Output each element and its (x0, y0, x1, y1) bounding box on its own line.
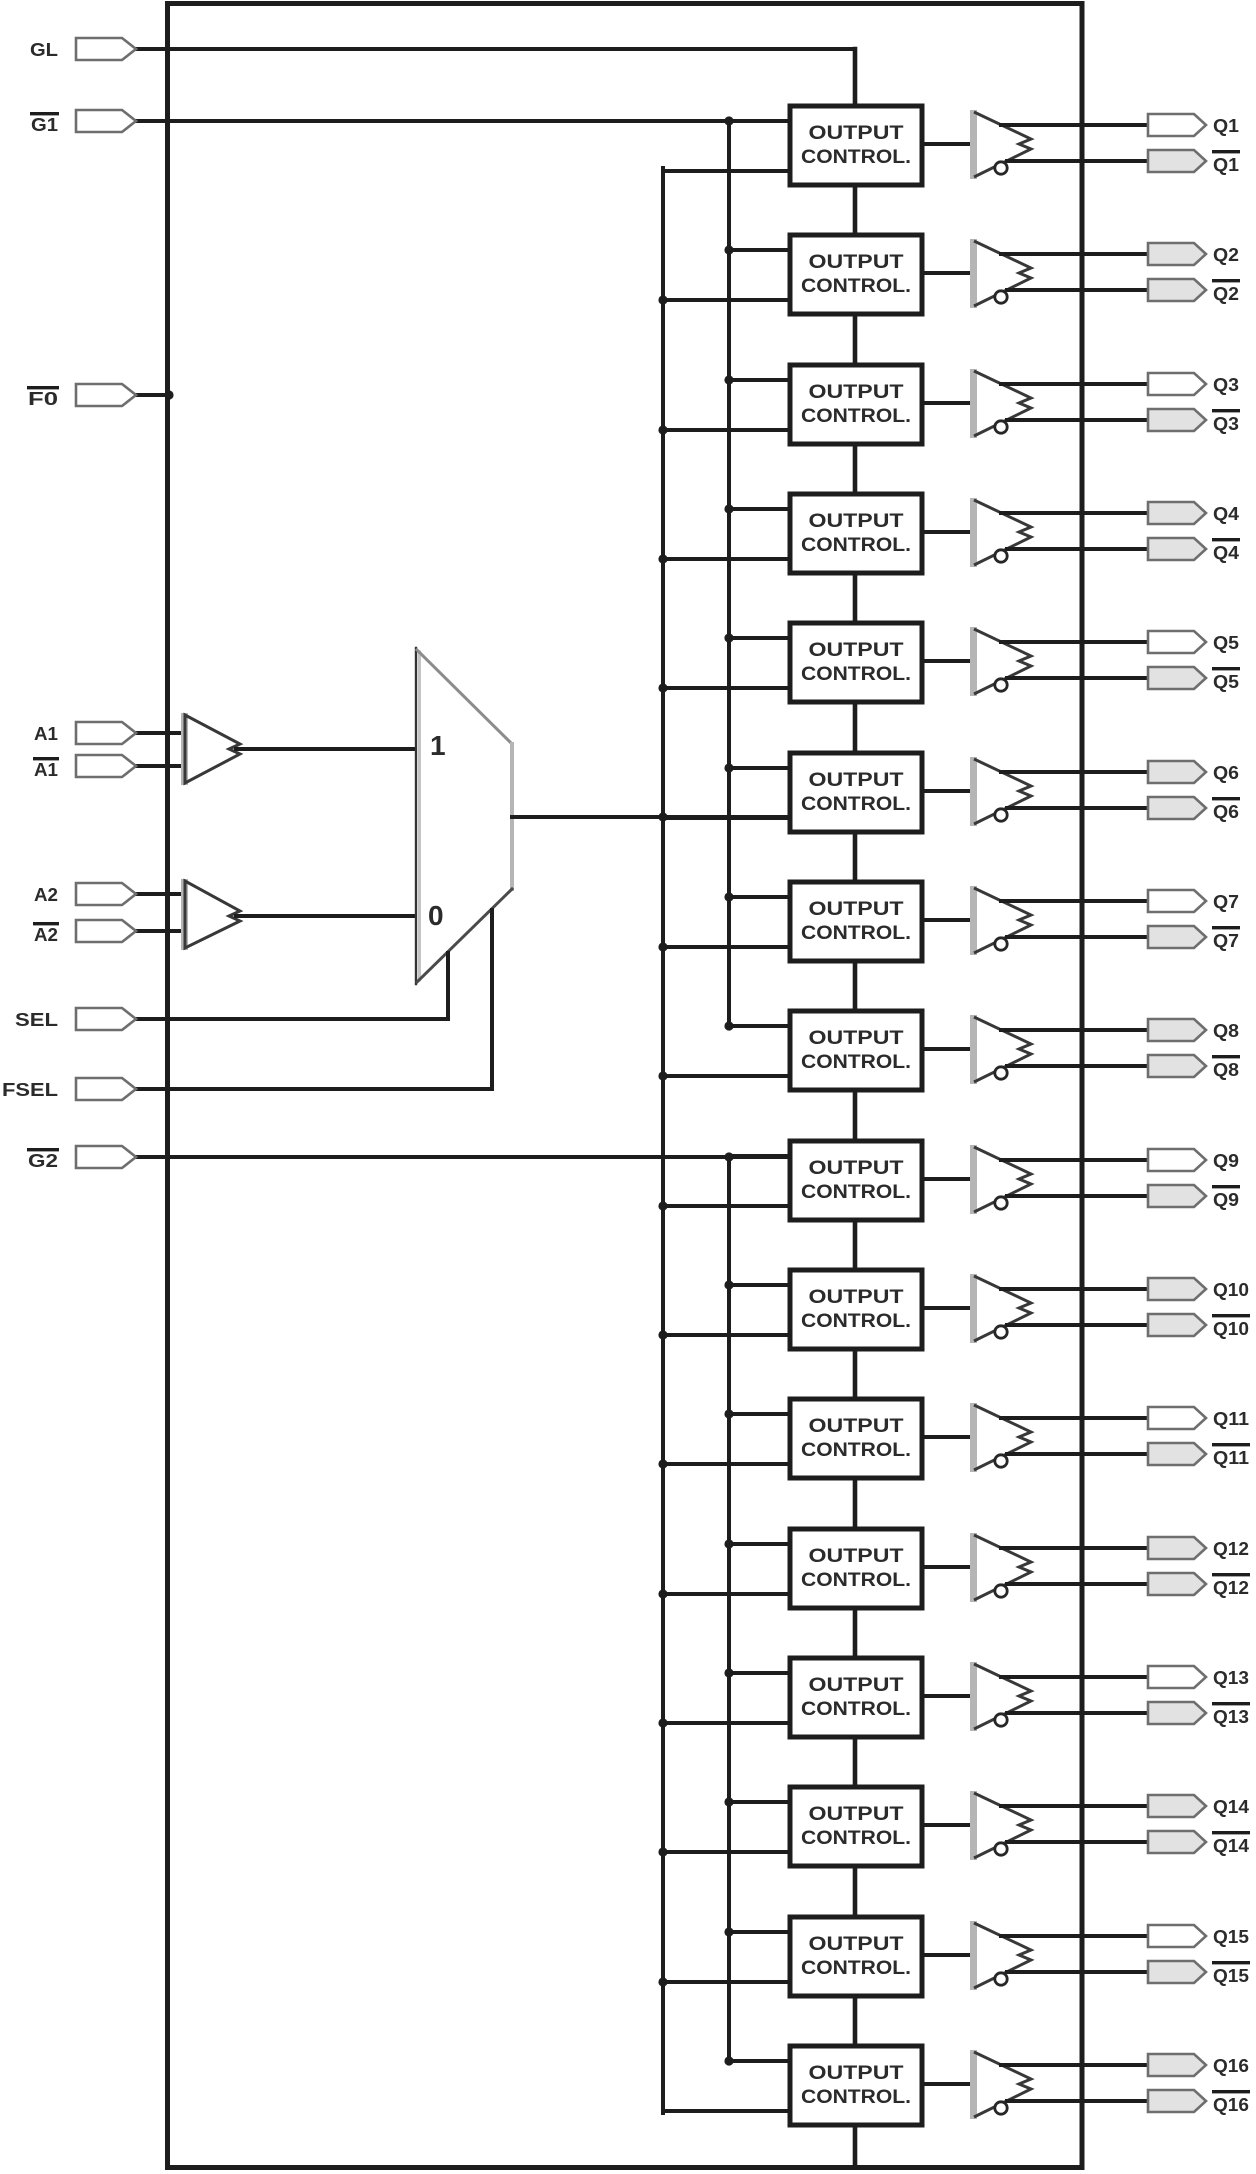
wire: Q8bar output (1007, 1064, 1148, 1068)
input pin A2 (133, 892, 184, 896)
svg-text:CONTROL.: CONTROL. (801, 147, 911, 168)
output control block OC9 (790, 1141, 922, 1220)
svg-text:OUTPUT: OUTPUT (809, 640, 904, 661)
junction G2 vertical block 12 (724, 1539, 733, 1548)
inversion bubble U8 (995, 1067, 1007, 1079)
input pin G1bar (133, 119, 790, 123)
svg-text:Q10: Q10 (1213, 1319, 1249, 1339)
svg-text:Q15: Q15 (1213, 1966, 1249, 1986)
wire: OC13 lower input (663, 1721, 790, 1725)
wire: Q6bar output (1007, 806, 1148, 810)
svg-text:G2: G2 (28, 1151, 58, 1171)
wire: OC8 output to buffer (920, 1047, 975, 1051)
output control block OC6 (790, 753, 922, 832)
svg-text:OUTPUT: OUTPUT (809, 1934, 904, 1955)
svg-text:1: 1 (430, 730, 446, 761)
junction clock vertical block 9 (658, 1201, 667, 1210)
inversion bubble U16 (995, 2102, 1007, 2114)
wire: Q1bar output (1007, 159, 1148, 163)
inversion bubble U11 (995, 1455, 1007, 1467)
input pin SEL (133, 1017, 448, 1021)
output control block OC8 (790, 1011, 922, 1090)
svg-text:CONTROL.: CONTROL. (801, 664, 911, 685)
output pin Q3 (1148, 373, 1206, 395)
wire: OC10 lower input (663, 1333, 790, 1337)
wire: Q13 output (1001, 1675, 1148, 1679)
svg-text:Q1: Q1 (1213, 116, 1239, 136)
wire: OC4 upper input (729, 507, 790, 511)
wire: OC12 lower input (663, 1592, 790, 1596)
input pin A2bar (133, 929, 184, 933)
wire: OC12 upper input (729, 1542, 790, 1546)
svg-text:Q10: Q10 (1213, 1280, 1249, 1300)
wire: Q11 output (1001, 1416, 1148, 1420)
wire: Q2 output (1001, 252, 1148, 256)
wire: OC3 output to buffer (920, 401, 975, 405)
inversion bubble U9 (995, 1197, 1007, 1209)
junction G1 vertical block 5 (724, 633, 733, 642)
inversion bubble U10 (995, 1326, 1007, 1338)
wire: OC8 upper input (729, 1024, 790, 1028)
wire: OC3 upper input (729, 378, 790, 382)
output control block OC16 (790, 2046, 922, 2125)
wire: OC7 output to buffer (920, 918, 975, 922)
output pin Q8bar (1148, 1055, 1206, 1077)
output buffer U11 (970, 1403, 977, 1472)
wire: Q5bar output (1007, 676, 1148, 680)
output control block OC12 (790, 1529, 922, 1608)
wire: Q3bar output (1007, 418, 1148, 422)
wire: Q9bar output (1007, 1194, 1148, 1198)
wire: OC15 lower input (663, 1980, 790, 1984)
output control block OC7 (790, 882, 922, 961)
junction G2 vertical block 16 (724, 2056, 733, 2065)
svg-text:Q5: Q5 (1213, 633, 1239, 653)
svg-text:Q1: Q1 (1213, 155, 1239, 175)
wire: OC6 lower input (663, 816, 790, 820)
output pin Q6bar (1148, 797, 1206, 819)
junction G1 vertical block 1 (724, 116, 733, 125)
output pin Q11 (1148, 1407, 1206, 1429)
inversion bubble U1 (995, 162, 1007, 174)
svg-text:0: 0 (428, 900, 444, 931)
wire: clock distribution vertical x=663 (661, 168, 665, 2113)
output pin Q1 (1148, 114, 1206, 136)
svg-text:OUTPUT: OUTPUT (809, 1546, 904, 1567)
output pin Q4bar (1148, 538, 1206, 560)
svg-text:Q5: Q5 (1213, 672, 1239, 692)
output control block OC14 (790, 1787, 922, 1866)
wire: Q14bar output (1007, 1840, 1148, 1844)
wire: OC11 output to buffer (920, 1435, 975, 1439)
svg-text:OUTPUT: OUTPUT (809, 1675, 904, 1696)
svg-text:OUTPUT: OUTPUT (809, 1158, 904, 1179)
svg-text:OUTPUT: OUTPUT (809, 1804, 904, 1825)
inversion bubble U14 (995, 1843, 1007, 1855)
wire: OC2 output to buffer (920, 271, 975, 275)
output pin Q8 (1148, 1019, 1206, 1041)
wire: OC4 output to buffer (920, 530, 975, 534)
wire: OC5 lower input (663, 686, 790, 690)
output control block OC13 (790, 1658, 922, 1737)
wire: OC2 lower input (663, 298, 790, 302)
wire: OC11 lower input (663, 1462, 790, 1466)
inversion bubble U13 (995, 1714, 1007, 1726)
wire: Q10 output (1001, 1287, 1148, 1291)
svg-text:FSEL: FSEL (2, 1080, 58, 1100)
junction G1 vertical block 6 (724, 763, 733, 772)
svg-text:F0: F0 (28, 389, 58, 409)
wire: OC14 output to buffer (920, 1823, 975, 1827)
svg-text:Q16: Q16 (1213, 2056, 1249, 2076)
svg-text:Q9: Q9 (1213, 1190, 1239, 1210)
wire: OC15 upper input (729, 1930, 790, 1934)
output buffer U13 (970, 1662, 977, 1731)
inversion bubble U5 (995, 679, 1007, 691)
svg-text:CONTROL.: CONTROL. (801, 406, 911, 427)
wire: G1 enable vertical x=729 (727, 121, 731, 1028)
svg-text:CONTROL.: CONTROL. (801, 2087, 911, 2108)
svg-text:OUTPUT: OUTPUT (809, 899, 904, 920)
output buffer U10 (970, 1274, 977, 1343)
junction clock vertical block 2 (658, 295, 667, 304)
svg-text:Q15: Q15 (1213, 1927, 1249, 1947)
svg-text:Q6: Q6 (1213, 802, 1239, 822)
wire: Q13bar output (1007, 1711, 1148, 1715)
wire: SEL to mux (446, 953, 450, 1019)
input pin FSEL (133, 1087, 492, 1091)
junction G1 vertical block 7 (724, 892, 733, 901)
svg-text:OUTPUT: OUTPUT (809, 770, 904, 791)
wire: Q9 output (1001, 1158, 1148, 1162)
junction G2 vertical block 11 (724, 1409, 733, 1418)
wire: OC6 upper input (729, 766, 790, 770)
output control block OC5 (790, 623, 922, 702)
svg-text:A1: A1 (34, 760, 58, 780)
wire: OC7 lower input (663, 945, 790, 949)
output pin Q13 (1148, 1666, 1206, 1688)
output buffer U5 (970, 627, 977, 696)
inversion bubble U12 (995, 1585, 1007, 1597)
svg-text:Q14: Q14 (1213, 1836, 1249, 1856)
svg-text:Q3: Q3 (1213, 414, 1239, 434)
device outline box (168, 4, 1083, 2168)
svg-text:OUTPUT: OUTPUT (809, 511, 904, 532)
svg-text:Q11: Q11 (1213, 1409, 1249, 1429)
svg-text:Q14: Q14 (1213, 1797, 1249, 1817)
junction G2 vertical block 9 (724, 1152, 733, 1161)
output buffer U12 (970, 1533, 977, 1602)
wire: OC8 lower input (663, 1074, 790, 1078)
junction clock vertical block 4 (658, 554, 667, 563)
svg-text:OUTPUT: OUTPUT (809, 1287, 904, 1308)
input pin G2bar (133, 1155, 790, 1159)
wire: Q7 output (1001, 899, 1148, 903)
wire: Q14 output (1001, 1804, 1148, 1808)
output pin Q10 (1148, 1278, 1206, 1300)
junction clock vertical block 7 (658, 942, 667, 951)
wire: OC9 output to buffer (920, 1177, 975, 1181)
svg-text:Q4: Q4 (1213, 504, 1239, 524)
svg-text:Q3: Q3 (1213, 375, 1239, 395)
output pin Q12 (1148, 1537, 1206, 1559)
wire: Q10bar output (1007, 1323, 1148, 1327)
output pin Q3bar (1148, 409, 1206, 431)
junction clock vertical block 3 (658, 425, 667, 434)
svg-text:OUTPUT: OUTPUT (809, 2063, 904, 2084)
wire: Q4 output (1001, 511, 1148, 515)
junction G1 vertical block 3 (724, 375, 733, 384)
wire: OC4 lower input (663, 557, 790, 561)
junction clock vertical block 10 (658, 1330, 667, 1339)
output pin Q16 (1148, 2054, 1206, 2076)
svg-text:OUTPUT: OUTPUT (809, 1028, 904, 1049)
svg-text:GL: GL (30, 40, 58, 60)
svg-text:Q6: Q6 (1213, 763, 1239, 783)
output pin Q13bar (1148, 1702, 1206, 1724)
wire: OC16 output to buffer (920, 2082, 975, 2086)
junction clock vertical block 12 (658, 1589, 667, 1598)
svg-text:CONTROL.: CONTROL. (801, 1182, 911, 1203)
svg-text:CONTROL.: CONTROL. (801, 276, 911, 297)
output pin Q4 (1148, 502, 1206, 524)
input pin A1bar (133, 764, 184, 768)
output buffer U8 (970, 1015, 977, 1084)
svg-text:Q13: Q13 (1213, 1668, 1249, 1688)
output buffer U4 (970, 498, 977, 567)
inversion bubble U15 (995, 1973, 1007, 1985)
wire: OC11 upper input (729, 1412, 790, 1416)
wire: OC7 upper input (729, 895, 790, 899)
svg-text:Q13: Q13 (1213, 1707, 1249, 1727)
junction G1 vertical block 4 (724, 504, 733, 513)
output control block OC3 (790, 365, 922, 444)
output control block OC15 (790, 1917, 922, 1996)
inversion bubble U3 (995, 421, 1007, 433)
svg-text:CONTROL.: CONTROL. (801, 1052, 911, 1073)
junction G2 vertical block 14 (724, 1797, 733, 1806)
junction clock vertical block 14 (658, 1847, 667, 1856)
wire: OC10 output to buffer (920, 1306, 975, 1310)
output buffer U15 (970, 1921, 977, 1990)
input pin F0bar (133, 393, 170, 397)
input pin GL (133, 47, 855, 51)
wire: Q1 output (1001, 123, 1148, 127)
svg-text:OUTPUT: OUTPUT (809, 1416, 904, 1437)
output pin Q1bar (1148, 150, 1206, 172)
output pin Q15bar (1148, 1961, 1206, 1983)
output buffer U1 (970, 110, 977, 179)
wire: A2 buffer out to mux input 0 (236, 914, 417, 918)
junction G1 vertical block 8 (724, 1021, 733, 1030)
wire: OC14 upper input (729, 1800, 790, 1804)
wire: Q12bar output (1007, 1582, 1148, 1586)
output buffer U6 (970, 757, 977, 826)
svg-text:Q12: Q12 (1213, 1539, 1249, 1559)
svg-text:OUTPUT: OUTPUT (809, 382, 904, 403)
svg-text:CONTROL.: CONTROL. (801, 1699, 911, 1720)
output buffer U14 (970, 1791, 977, 1860)
svg-text:Q8: Q8 (1213, 1060, 1239, 1080)
svg-text:G1: G1 (31, 115, 58, 135)
output buffer U7 (970, 886, 977, 955)
svg-text:CONTROL.: CONTROL. (801, 1311, 911, 1332)
wire: Q15bar output (1007, 1970, 1148, 1974)
wire: OC6 output to buffer (920, 789, 975, 793)
inversion bubble U2 (995, 291, 1007, 303)
junction G2 vertical block 13 (724, 1668, 733, 1677)
wire: G2 enable vertical x=729 lower (727, 1157, 731, 2063)
junction G2 vertical block 15 (724, 1927, 733, 1936)
wire: Q3 output (1001, 382, 1148, 386)
svg-text:CONTROL.: CONTROL. (801, 1440, 911, 1461)
wire: mux output to clock vertical and OC6 (512, 815, 790, 819)
wire: Q4bar output (1007, 547, 1148, 551)
output pin Q11bar (1148, 1443, 1206, 1465)
wire: OC3 lower input (663, 428, 790, 432)
wire: OC5 output to buffer (920, 659, 975, 663)
wire: OC13 upper input (729, 1671, 790, 1675)
output control block OC4 (790, 494, 922, 573)
wire: OC9 lower input (663, 1204, 790, 1208)
wire: Q16 output (1001, 2063, 1148, 2067)
svg-text:Q12: Q12 (1213, 1578, 1249, 1598)
output pin Q10bar (1148, 1314, 1206, 1336)
wire: Q11bar output (1007, 1452, 1148, 1456)
inversion bubble U6 (995, 809, 1007, 821)
svg-text:Q8: Q8 (1213, 1021, 1239, 1041)
svg-text:Q2: Q2 (1213, 245, 1239, 265)
svg-text:A2: A2 (34, 885, 58, 905)
output pin Q5bar (1148, 667, 1206, 689)
output buffer U2 (970, 239, 977, 308)
output pin Q16bar (1148, 2090, 1206, 2112)
svg-text:CONTROL.: CONTROL. (801, 1958, 911, 1979)
svg-text:Q11: Q11 (1213, 1448, 1249, 1468)
wire: Q7bar output (1007, 935, 1148, 939)
wire: OC1 lower input (663, 169, 790, 173)
junction clock vertical block 13 (658, 1718, 667, 1727)
inversion bubble U4 (995, 550, 1007, 562)
wire: Q16bar output (1007, 2099, 1148, 2103)
svg-text:Q16: Q16 (1213, 2095, 1249, 2115)
output control block OC10 (790, 1270, 922, 1349)
svg-text:Q2: Q2 (1213, 284, 1239, 304)
svg-text:CONTROL.: CONTROL. (801, 1570, 911, 1591)
svg-text:Q7: Q7 (1213, 892, 1239, 912)
wire: OC12 output to buffer (920, 1565, 975, 1569)
wire: Q8 output (1001, 1028, 1148, 1032)
output buffer U16 (970, 2050, 977, 2119)
output pin Q7 (1148, 890, 1206, 912)
output pin Q2 (1148, 243, 1206, 265)
output pin Q2bar (1148, 279, 1206, 301)
wire: A1 buffer out to mux input 1 (236, 747, 417, 751)
wire: OC10 upper input (729, 1283, 790, 1287)
junction G2 vertical block 10 (724, 1280, 733, 1289)
svg-text:OUTPUT: OUTPUT (809, 123, 904, 144)
wire: Q12 output (1001, 1546, 1148, 1550)
svg-text:CONTROL.: CONTROL. (801, 1828, 911, 1849)
output pin Q9 (1148, 1149, 1206, 1171)
output pin Q5 (1148, 631, 1206, 653)
svg-text:A2: A2 (34, 925, 58, 945)
svg-text:CONTROL.: CONTROL. (801, 535, 911, 556)
wire: OC16 upper input (729, 2059, 790, 2063)
svg-text:A1: A1 (34, 724, 58, 744)
output buffer U9 (970, 1145, 977, 1214)
svg-text:Q7: Q7 (1213, 931, 1239, 951)
output pin Q9bar (1148, 1185, 1206, 1207)
wire: OC1 output to buffer (920, 142, 975, 146)
junction dot F0 to border (164, 390, 173, 399)
svg-text:CONTROL.: CONTROL. (801, 794, 911, 815)
output pin Q12bar (1148, 1573, 1206, 1595)
wire: GL/output-control chain vertical x=855 (853, 49, 858, 2167)
svg-text:OUTPUT: OUTPUT (809, 252, 904, 273)
wire: OC15 output to buffer (920, 1953, 975, 1957)
input pin A1 (133, 731, 184, 735)
wire: Q6 output (1001, 770, 1148, 774)
wire: OC16 lower input (663, 2109, 790, 2113)
junction clock vertical block 8 (658, 1071, 667, 1080)
output buffer U3 (970, 369, 977, 438)
wire: OC2 upper input (729, 248, 790, 252)
svg-text:CONTROL.: CONTROL. (801, 923, 911, 944)
inversion bubble U7 (995, 938, 1007, 950)
wire: Q5 output (1001, 640, 1148, 644)
svg-text:Q9: Q9 (1213, 1151, 1239, 1171)
mux 2:1 (417, 650, 512, 982)
junction clock vertical block 5 (658, 683, 667, 692)
wire: OC14 lower input (663, 1850, 790, 1854)
output control block OC2 (790, 235, 922, 314)
input buffer A2 (181, 879, 188, 950)
output pin Q7bar (1148, 926, 1206, 948)
wire: FSEL to mux (490, 910, 494, 1089)
junction clock vertical block 15 (658, 1977, 667, 1986)
wire: OC9 upper input (729, 1154, 790, 1158)
wire: OC5 upper input (729, 636, 790, 640)
output pin Q15 (1148, 1925, 1206, 1947)
wire: Q2bar output (1007, 288, 1148, 292)
svg-text:SEL: SEL (15, 1010, 58, 1030)
output pin Q14bar (1148, 1831, 1206, 1853)
wire: OC1 upper input (729, 119, 790, 123)
output control block OC11 (790, 1399, 922, 1478)
output pin Q6 (1148, 761, 1206, 783)
output pin Q14 (1148, 1795, 1206, 1817)
wire: OC13 output to buffer (920, 1694, 975, 1698)
output control block OC1 (790, 106, 922, 185)
junction clock vertical block 11 (658, 1459, 667, 1468)
svg-text:Q4: Q4 (1213, 543, 1239, 563)
wire: Q15 output (1001, 1934, 1148, 1938)
input buffer A1 (181, 713, 188, 785)
junction G1 vertical block 2 (724, 245, 733, 254)
